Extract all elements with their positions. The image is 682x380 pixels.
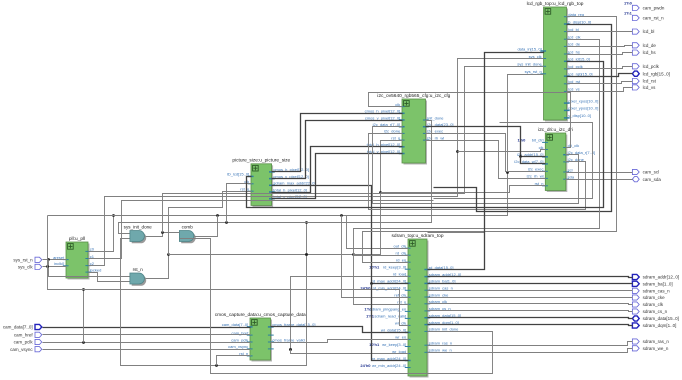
port cam_rst_n	[624, 11, 664, 21]
svg-text:cam_pclk: cam_pclk	[231, 337, 248, 342]
wire sdram_data bus to port	[428, 318, 633, 319]
svg-text:sda: sda	[568, 175, 575, 180]
wire sys_clk to pll inclk0	[43, 266, 67, 268]
junction cam_vsync b	[289, 348, 292, 351]
wire sys_clk up	[47, 216, 49, 267]
port cam_pclk	[14, 339, 42, 344]
junction cam_vsync	[289, 348, 292, 351]
svg-text:sdram_addr[12..0]: sdram_addr[12..0]	[643, 275, 680, 280]
port sdram_cas_n	[632, 288, 670, 293]
svg-text:total_h_pixel[12..0]: total_h_pixel[12..0]	[273, 187, 307, 192]
svg-text:10'h1: 10'h1	[369, 265, 380, 270]
wire lcd_clk to sdram rd_clk	[354, 40, 600, 256]
svg-text:sdram_cs_n: sdram_cs_n	[643, 309, 668, 314]
svg-text:lcd_clk: lcd_clk	[568, 35, 580, 40]
wire clk to i2c_dri clk	[458, 150, 546, 152]
svg-text:i2c_ov5640_rgb565_cfg:u_i2c_cf: i2c_ov5640_rgb565_cfg:u_i2c_cfg	[377, 93, 450, 99]
junction sys_init_done net	[161, 231, 164, 234]
svg-text:cam_href: cam_href	[14, 332, 34, 337]
junction cam_pclk	[82, 341, 85, 344]
wire clk to sdram ref_clk	[342, 216, 409, 298]
junction top of bottom run	[305, 221, 308, 224]
junction rst_n net d	[352, 253, 355, 256]
svg-text:sdram_pingpang_en: sdram_pingpang_en	[370, 307, 406, 312]
svg-text:bit_ctrl: bit_ctrl	[532, 138, 544, 143]
wire lcd_pclk to port	[567, 67, 633, 69]
wire lcd_de to port	[567, 46, 633, 47]
svg-text:i2c_done: i2c_done	[384, 129, 401, 134]
svg-text:sdram_cke: sdram_cke	[643, 295, 666, 300]
wire rst_n to i2c_cfg rst_n	[354, 141, 403, 255]
svg-text:sdram_ras_n: sdram_ras_n	[643, 339, 670, 344]
svg-text:sdram_top:u_sdram_top: sdram_top:u_sdram_top	[392, 233, 444, 239]
wire total_v_pixel bus	[272, 154, 403, 199]
wire cam_href to cmos	[43, 334, 251, 336]
wire bottom run to sys_init_done gate in2	[121, 223, 307, 366]
wire pll c2 to lcd sys_clk	[89, 59, 544, 266]
svg-text:sdram_dqm[1..0]: sdram_dqm[1..0]	[643, 323, 677, 328]
svg-text:24'h0: 24'h0	[360, 363, 371, 368]
junction rst_n net a	[167, 253, 170, 256]
wire sys_rst_n to pll areset	[43, 259, 67, 261]
svg-text:wr_en: wr_en	[395, 335, 406, 340]
junction rst_n crossing	[305, 253, 308, 256]
wire comb out up to clk run	[195, 216, 218, 237]
port cam_scl	[632, 169, 659, 174]
svg-text:rd_keep[3..0]: rd_keep[3..0]	[383, 265, 406, 270]
wire cam_vsync to sdram rd_load	[291, 277, 409, 350]
port cam_href	[14, 332, 42, 337]
port sdram_ba[1..0]	[632, 281, 672, 286]
module block cmos_capture_data:u_cmos_capture_data	[215, 312, 316, 362]
svg-text:lcd_rgb_top:u_lcd_rgb_top: lcd_rgb_top:u_lcd_rgb_top	[527, 1, 584, 7]
port cam_vsync	[10, 347, 42, 352]
svg-text:cam_pwdn: cam_pwdn	[643, 6, 665, 11]
junction rst_n net e	[379, 191, 382, 194]
port lcd_de	[632, 43, 656, 48]
junction sdram_max_addr	[370, 282, 373, 285]
svg-text:data_in[15..0]: data_in[15..0]	[517, 46, 541, 51]
wire rst_n to sdram rst_n	[169, 255, 409, 305]
wire scl to cam_scl	[566, 172, 633, 174]
svg-text:sdram_clk: sdram_clk	[643, 302, 664, 307]
wire i2c_data to i2c_data_w	[521, 157, 546, 164]
svg-text:pixel_ypos[10..0]: pixel_ypos[10..0]	[568, 106, 598, 111]
svg-text:i2c_rh_wl: i2c_rh_wl	[527, 174, 544, 179]
svg-text:lcd_vs: lcd_vs	[643, 85, 657, 90]
svg-text:picture_size:u_picture_size: picture_size:u_picture_size	[232, 158, 290, 164]
wire sdram_addr to port	[428, 277, 633, 278]
wire cam_data bus to cmos	[43, 327, 251, 329]
svg-text:sdram_cke: sdram_cke	[429, 292, 449, 297]
wire total_h_pixel bus	[272, 147, 403, 193]
svg-text:pll:u_pll: pll:u_pll	[69, 236, 85, 242]
port sdram_cke	[632, 295, 665, 300]
port lcd_vs	[632, 85, 656, 90]
junction c0	[112, 214, 115, 217]
svg-text:sdram_ba[1..0]: sdram_ba[1..0]	[643, 281, 673, 286]
svg-text:sdram_init_done: sdram_init_done	[429, 327, 459, 332]
port sys_clk	[18, 264, 42, 269]
svg-text:lcd_rst: lcd_rst	[643, 79, 657, 84]
wire sdram_dqm to port	[428, 325, 633, 326]
port sdram_clk	[632, 302, 663, 307]
svg-text:cam_scl: cam_scl	[643, 170, 660, 175]
wire cam_vsync to cmos	[43, 349, 251, 351]
svg-text:sys_rst_n: sys_rst_n	[13, 257, 33, 262]
svg-text:cam_vsync: cam_vsync	[10, 347, 33, 352]
svg-text:sdram_read_valid: sdram_read_valid	[374, 314, 406, 319]
wire i2c_done back to cfg	[369, 134, 586, 210]
wire cam_pclk to cmos	[43, 342, 251, 344]
wire loop around i2c_dri	[434, 123, 593, 199]
svg-text:rd_load: rd_load	[393, 272, 406, 277]
svg-text:i2c_exec: i2c_exec	[528, 167, 544, 172]
port lcd_pclk	[632, 64, 659, 69]
svg-text:1'h0: 1'h0	[624, 1, 633, 6]
wire sdram_cs_n to port	[428, 311, 633, 312]
svg-text:ref_clk: ref_clk	[394, 293, 406, 298]
wire sdram_max_addr to wr_max_addr	[372, 284, 409, 361]
port lcd_hs	[632, 50, 656, 55]
wire pll c0 up	[89, 216, 114, 252]
svg-text:rst_n: rst_n	[391, 135, 400, 140]
svg-text:sys_init_done: sys_init_done	[517, 62, 542, 67]
module block i2c_ov5640_rgb565_cfg:u_i2c_cfg	[365, 93, 454, 165]
port sdram_addr[12..0]	[632, 274, 679, 279]
port cam_data[7..0]	[3, 324, 42, 329]
svg-text:cam_vsync: cam_vsync	[228, 344, 248, 349]
svg-text:rst_n: rst_n	[397, 300, 406, 305]
svg-text:lcd_hs: lcd_hs	[568, 49, 580, 54]
wire pll locked to rst_n gate in2	[89, 273, 130, 282]
gate comb	[179, 225, 195, 244]
svg-text:h_disp[10..0]: h_disp[10..0]	[568, 19, 591, 24]
wire sys_rst_n to lcd sys_rst_n	[347, 75, 544, 216]
wire dri_clk to cfg clk	[369, 93, 571, 148]
svg-text:sdram_cas_n: sdram_cas_n	[643, 288, 671, 293]
svg-text:1'h0: 1'h0	[517, 138, 526, 143]
svg-text:cam_data[7..0]: cam_data[7..0]	[3, 325, 33, 330]
wire rst_n to picture_size rst_n	[169, 192, 252, 255]
wire sdram_cas_n to port	[428, 290, 633, 292]
svg-text:lcd_de: lcd_de	[643, 43, 657, 48]
wire lcd_bl to port	[567, 31, 633, 33]
wire i2c_data bus to i2c_addr	[426, 127, 546, 157]
svg-text:locked: locked	[90, 267, 102, 272]
port sdram_dqm[1..0]	[632, 323, 676, 328]
svg-text:cam_rst_n: cam_rst_n	[643, 16, 665, 21]
wire cmos_frame_data to wr_data	[271, 327, 409, 333]
junction sys_clk net	[456, 150, 459, 153]
svg-text:sdram_we_n: sdram_we_n	[429, 348, 452, 353]
wire sys_rst_n to rst_n gate in1	[49, 260, 130, 277]
wire lcd_rst to port	[567, 82, 633, 84]
wire clk run to sdram wr_clk	[48, 267, 409, 326]
svg-text:comb: comb	[182, 225, 194, 230]
svg-text:cmos_v_pixel[12..0]: cmos_v_pixel[12..0]	[365, 115, 400, 120]
svg-text:wr_clk: wr_clk	[395, 321, 406, 326]
wire lcd_hs to port	[567, 53, 633, 55]
svg-text:sys_rst_n: sys_rst_n	[525, 69, 542, 74]
svg-text:i2c_dri:u_i2c_dri: i2c_dri:u_i2c_dri	[538, 127, 573, 133]
svg-text:wr_keep[3..0]: wr_keep[3..0]	[382, 342, 406, 347]
svg-text:lcd_vs: lcd_vs	[568, 87, 579, 92]
wire pll c1	[89, 201, 434, 259]
svg-text:1'h1: 1'h1	[366, 314, 375, 319]
svg-text:lcd_rgb[15..0]: lcd_rgb[15..0]	[643, 71, 670, 76]
svg-text:lcd_bl: lcd_bl	[643, 29, 655, 34]
svg-text:lcd_hs: lcd_hs	[643, 50, 657, 55]
junction cam_pclk b	[82, 288, 85, 291]
svg-text:pixel_xpos[10..0]: pixel_xpos[10..0]	[568, 98, 598, 103]
svg-text:sdram_cas_n: sdram_cas_n	[429, 286, 453, 291]
svg-text:sys_clk: sys_clk	[18, 265, 34, 270]
svg-text:1'h1: 1'h1	[624, 11, 633, 16]
port sdram_we_n	[632, 346, 668, 351]
svg-text:inclk0: inclk0	[54, 261, 65, 266]
wire cmos_v_pixel bus	[272, 121, 403, 179]
wire i2c_exec	[426, 134, 546, 172]
wire clk main run to sdram out_clk	[48, 216, 409, 249]
svg-text:cam_pclk: cam_pclk	[14, 340, 34, 345]
wire data_req to sdram rd_en	[363, 17, 617, 263]
svg-text:cam_sda: cam_sda	[643, 177, 662, 182]
wire lcd_id to picture_size ID_lcd	[247, 62, 604, 208]
svg-text:lcd_pclk: lcd_pclk	[643, 64, 660, 69]
port sdram_data[15..0]	[632, 316, 678, 321]
port lcd_rgb[15..0]	[632, 71, 669, 76]
wire rst_n to i2c_dri rst_n	[381, 186, 546, 193]
wire cmos_frame_valid to wr_en	[271, 340, 409, 343]
module block i2c_dri:u_i2c_dri	[514, 127, 595, 192]
port sys_rst_n	[13, 257, 41, 262]
wire sdram_we_n to port	[428, 349, 633, 353]
wire h_disp	[434, 25, 612, 212]
port sdram_cs_n	[632, 309, 667, 314]
svg-text:init_done: init_done	[427, 115, 444, 120]
wire sdram_cke to port	[428, 297, 633, 299]
wire cam_pclk branch up	[83, 290, 85, 343]
svg-text:cam_data[7..0]: cam_data[7..0]	[222, 322, 248, 327]
svg-text:sys_init_done: sys_init_done	[124, 225, 153, 230]
svg-text:v_disp[10..0]: v_disp[10..0]	[568, 113, 591, 118]
svg-text:lcd_de: lcd_de	[568, 42, 581, 47]
gate rst_n	[130, 267, 146, 286]
junction clk net b	[340, 214, 343, 217]
svg-text:cmos_capture_data:u_cmos_captu: cmos_capture_data:u_cmos_capture_data	[215, 312, 306, 318]
svg-text:rd_en: rd_en	[396, 258, 406, 263]
module block picture_size:u_picture_size	[227, 158, 316, 207]
junction clk net a	[216, 214, 219, 217]
svg-text:ID_lcd[15..0]: ID_lcd[15..0]	[227, 172, 249, 177]
svg-text:cmos_frame_valid: cmos_frame_valid	[272, 337, 304, 342]
wire sda to cam_sda	[566, 179, 633, 181]
wire cam_vsync to sdram wr_load	[291, 350, 409, 354]
wire sys_init_done out to comb in1	[146, 233, 180, 237]
junction clk pic branch	[225, 221, 228, 224]
wire lcd_rgb bus to port	[567, 74, 633, 77]
wire lcd_vs to port	[567, 88, 633, 92]
module block pll:u_pll	[53, 236, 101, 280]
port lcd_rst	[632, 79, 656, 84]
wire i2c_data_r bus back to cfg	[373, 127, 579, 204]
junction sys_clk	[46, 265, 49, 268]
gate sys_init_done	[124, 225, 153, 244]
svg-text:rst_n: rst_n	[133, 267, 144, 272]
svg-text:i2c_rh_wl: i2c_rh_wl	[427, 135, 444, 140]
svg-text:10'h1: 10'h1	[369, 342, 380, 347]
junction sys_rst_n	[47, 258, 50, 261]
wire sdram_ba to port	[428, 283, 633, 285]
svg-text:sdram_we_n: sdram_we_n	[643, 346, 669, 351]
module block sdram_top:u_sdram_top	[360, 233, 461, 378]
svg-text:rd_clk: rd_clk	[396, 251, 407, 256]
svg-text:scl: scl	[568, 167, 573, 172]
svg-text:out_clk: out_clk	[394, 244, 407, 249]
junction sys_rst_n lcd	[506, 171, 509, 174]
wire cmos_h_pixel bus	[272, 114, 403, 172]
svg-text:wr_min_addr[24..0]: wr_min_addr[24..0]	[372, 363, 406, 368]
port cam_sda	[632, 177, 661, 182]
port sdram_ras_n	[632, 339, 669, 344]
junction i2c_data split	[519, 155, 522, 158]
junction rst_n net c	[215, 364, 218, 367]
wire box top at rd_data loop	[428, 232, 485, 234]
svg-text:sdram_data[15..0]: sdram_data[15..0]	[643, 316, 679, 321]
wire i2c_rh_wl	[426, 141, 546, 179]
wire rst_n to cmos rst_n	[217, 356, 251, 366]
wire sys_init_done to lcd	[163, 67, 544, 233]
junction rst_n net b	[305, 253, 308, 256]
port cam_pwdn	[624, 1, 665, 11]
wire sdram_init_done to comb in2	[180, 239, 493, 374]
svg-text:sdram_ras_n: sdram_ras_n	[429, 341, 452, 346]
svg-text:lcd_rgb[15..0]: lcd_rgb[15..0]	[568, 72, 592, 77]
wire rd_data bus to lcd data_in	[428, 52, 544, 270]
svg-text:i2c_exec: i2c_exec	[427, 129, 443, 134]
wire i2c init_done to gate in1	[119, 121, 432, 234]
wire sdram_clk to port	[428, 304, 633, 305]
module block lcd_rgb_top:u_lcd_rgb_top	[517, 1, 598, 122]
wire sdram_max_addr bus to rd_max_addr	[272, 186, 409, 284]
wire sdram_ras_n to port	[428, 342, 633, 346]
wire rst_n gate out	[146, 255, 169, 279]
wire clk to picture_size clk	[227, 184, 252, 223]
svg-text:rst_n: rst_n	[240, 187, 249, 192]
port lcd_bl	[632, 29, 654, 34]
